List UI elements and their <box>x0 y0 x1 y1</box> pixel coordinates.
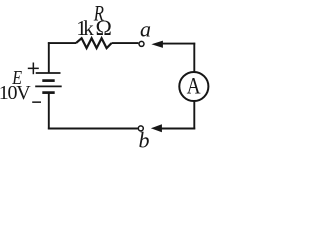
svg-text:a: a <box>140 17 151 42</box>
svg-text:10V: 10V <box>0 82 31 104</box>
svg-text:A: A <box>187 74 201 99</box>
svg-text:b: b <box>139 127 150 152</box>
svg-text:k: k <box>83 16 94 40</box>
svg-text:Ω: Ω <box>96 15 112 40</box>
